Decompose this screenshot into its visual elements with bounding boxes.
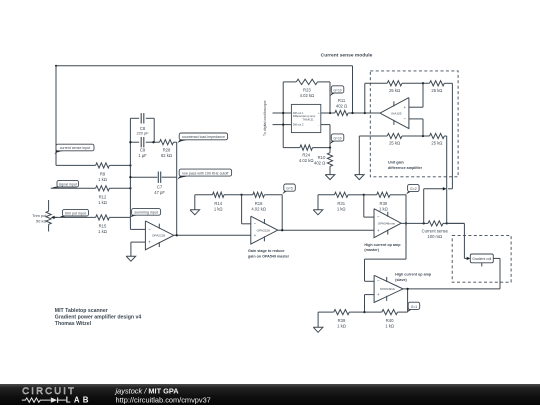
wire summing bus <box>129 118 131 217</box>
flag G=2 <box>406 184 419 194</box>
svg-text:−: − <box>148 227 151 232</box>
text high current slave <box>395 273 432 282</box>
capacitor C8 <box>136 113 149 135</box>
wire R18 ends <box>242 194 283 196</box>
svg-text:402 Ω: 402 Ω <box>336 104 347 109</box>
resistor R30 <box>377 192 390 211</box>
wire sense left up to INA <box>424 189 444 224</box>
dashed box gradient coil <box>452 236 511 283</box>
resistor 25k minus <box>430 133 445 145</box>
svg-text:low pass with 100 KHz cutoff: low pass with 100 KHz cutoff <box>182 172 228 176</box>
svg-text:jaystock / MIT GPA: jaystock / MIT GPA <box>115 387 180 396</box>
op-amp U1 OPA2228 <box>145 221 173 250</box>
logo CIRCUIT LAB <box>22 386 92 404</box>
resistor R12 <box>96 186 110 205</box>
wire R30 ends <box>364 194 406 196</box>
svg-text:+: + <box>403 105 406 110</box>
wire diff input bus <box>282 82 284 148</box>
resistor 25k feedback <box>387 81 402 93</box>
svg-text:LAB: LAB <box>66 395 92 404</box>
wire 25k bottom row <box>359 135 429 137</box>
ground op1 <box>126 256 136 261</box>
resistor 25k ref <box>430 81 445 93</box>
op-amp U5 OPA549slv <box>374 275 403 302</box>
svg-text:47 pF: 47 pF <box>154 190 165 195</box>
svg-text:R39: R39 <box>338 318 346 323</box>
wire to gradient coil <box>447 223 467 258</box>
svg-text:100 mΩ: 100 mΩ <box>427 234 442 239</box>
svg-text:(master): (master) <box>364 248 379 252</box>
svg-text:25 kΩ: 25 kΩ <box>389 88 400 93</box>
wire diff out2 right <box>321 125 330 148</box>
wire diff out1 right <box>321 112 330 114</box>
resistor R39 <box>334 310 350 329</box>
node sense right <box>446 222 448 224</box>
svg-text:Current sense: Current sense <box>422 229 449 234</box>
svg-text:1 µF: 1 µF <box>138 153 147 158</box>
svg-text:+: + <box>377 228 380 233</box>
flag G=5 <box>282 184 295 195</box>
svg-text:G=2: G=2 <box>410 187 417 191</box>
svg-text:difference amplifier: difference amplifier <box>388 166 423 170</box>
resistor R28 <box>160 140 174 158</box>
node 25k top mid <box>422 82 424 84</box>
svg-text:Diff out 1: Diff out 1 <box>293 111 304 115</box>
svg-text:OPA2228: OPA2228 <box>152 234 165 238</box>
svg-text:G=10: G=10 <box>333 137 341 141</box>
svg-text:signal input: signal input <box>59 182 77 186</box>
svg-text:Diff out 2: Diff out 2 <box>293 123 304 127</box>
svg-text:To digital oscilloscope: To digital oscilloscope <box>263 100 267 136</box>
wire sense right up to INA <box>444 136 446 223</box>
node INA out top <box>351 112 353 114</box>
resistor R31 <box>334 192 348 211</box>
wire INA ref down <box>448 83 452 189</box>
svg-text:+: + <box>377 292 380 297</box>
wire op1 output <box>174 234 251 236</box>
svg-text:1 kΩ: 1 kΩ <box>337 206 346 211</box>
svg-text:(slave): (slave) <box>395 278 407 282</box>
svg-text:+: + <box>148 240 151 245</box>
wire op2 minus input <box>242 195 251 224</box>
arrow sense net <box>443 187 447 190</box>
wire op1 minus input <box>130 217 145 229</box>
wire R11 left <box>330 112 335 114</box>
resistor R24 <box>299 145 314 163</box>
svg-text:4.02 kΩ: 4.02 kΩ <box>300 93 315 98</box>
svg-text:1 kΩ: 1 kΩ <box>98 229 107 234</box>
svg-text:summing input: summing input <box>134 211 157 215</box>
svg-text:R30: R30 <box>380 201 388 206</box>
node R9-bus <box>129 164 131 166</box>
svg-text:counteract load impedance: counteract load impedance <box>182 135 225 139</box>
wire R14 row <box>195 195 242 210</box>
svg-text:MIT Tabletop scanner: MIT Tabletop scanner <box>55 308 108 314</box>
svg-text:http://circuitlab.com/cmvpv37: http://circuitlab.com/cmvpv37 <box>116 396 211 405</box>
svg-text:OPA2228: OPA2228 <box>257 228 270 232</box>
svg-text:−: − <box>377 215 380 220</box>
ground R10 <box>325 175 335 180</box>
flag low pass with 100 KHz cutoff <box>177 169 232 181</box>
svg-text:Gain stage to reduce: Gain stage to reduce <box>248 249 284 253</box>
ground R39 <box>313 327 323 332</box>
svg-text:High current op amp: High current op amp <box>395 273 432 277</box>
svg-text:Trim pot: Trim pot <box>32 213 47 218</box>
node R24 right <box>329 146 331 148</box>
wire R9 row <box>56 164 130 166</box>
wire feedback bus <box>176 142 178 235</box>
node C9-R28 <box>152 141 154 143</box>
wire INA feedback up <box>364 83 366 113</box>
resistor R10 <box>314 148 333 175</box>
node op2 output <box>281 229 283 231</box>
svg-text:Thomas Witzel: Thomas Witzel <box>55 321 92 327</box>
svg-text:R14: R14 <box>214 201 222 206</box>
svg-text:−: − <box>318 124 320 127</box>
wire master out to slave minus <box>365 259 407 281</box>
wire op2 feedback down <box>281 195 283 230</box>
wire R40 ends <box>365 311 408 313</box>
svg-text:4.02 kΩ: 4.02 kΩ <box>299 158 314 163</box>
wire op1 plus to ground <box>131 242 146 256</box>
svg-text:R28: R28 <box>163 147 171 152</box>
wire master minus input <box>364 195 374 217</box>
flag G=10 top <box>330 86 344 97</box>
flag summing input <box>130 209 160 218</box>
wire gradient coil return <box>493 258 500 289</box>
wire C7 row <box>130 176 176 178</box>
node R11 left <box>329 112 331 114</box>
wire op2 output <box>278 229 374 231</box>
flag counteract load impedance <box>177 133 228 145</box>
arrow into gradient coil <box>467 257 471 260</box>
wire diff out 1 stub <box>273 112 292 114</box>
text title block <box>55 308 142 327</box>
svg-text:current sense input: current sense input <box>60 146 91 150</box>
svg-text:25 kΩ: 25 kΩ <box>431 141 442 146</box>
svg-text:1 kΩ: 1 kΩ <box>98 200 107 205</box>
wire slave plus input <box>365 295 375 313</box>
resistor R23 <box>296 79 317 98</box>
svg-text:1 kΩ: 1 kΩ <box>337 324 346 329</box>
op-amp U4 INA105 <box>380 98 409 129</box>
text unit gain difference amplifier <box>388 161 423 170</box>
svg-text:Unit gain: Unit gain <box>388 161 405 165</box>
dashed box current sense module <box>370 71 458 177</box>
svg-text:−: − <box>254 221 257 226</box>
svg-text:Gradient coil: Gradient coil <box>472 257 491 261</box>
ground R14 <box>190 210 200 215</box>
node R39-R40 <box>363 311 365 313</box>
svg-text:R23: R23 <box>303 88 311 93</box>
wire R24 row <box>283 147 330 149</box>
flag G=1 <box>408 302 420 312</box>
flag trim pot input <box>60 209 89 217</box>
text high current master <box>364 243 401 252</box>
wire R12 row <box>51 187 131 189</box>
wire R31 row <box>318 195 364 210</box>
node INA out fb <box>364 112 366 114</box>
node R14-R18 <box>240 194 242 196</box>
node sense left <box>423 222 425 224</box>
wire 25k top row <box>365 82 453 84</box>
svg-text:R10: R10 <box>318 155 326 160</box>
wire INA minus input <box>409 119 423 136</box>
svg-text:R12: R12 <box>99 194 107 199</box>
svg-text:G=1: G=1 <box>411 305 418 309</box>
resistor R11 <box>335 98 348 115</box>
wire master output <box>401 222 424 224</box>
svg-text:G=5: G=5 <box>286 187 293 191</box>
wire sense row <box>424 222 465 224</box>
resistor 25k gnd <box>387 133 402 145</box>
svg-text:−: − <box>377 279 380 284</box>
svg-text:trim pot input: trim pot input <box>65 211 86 215</box>
node bus-C7 <box>129 176 131 178</box>
svg-text:1 kΩ: 1 kΩ <box>214 206 223 211</box>
svg-text:R40: R40 <box>386 318 394 323</box>
wire top feedback net <box>55 65 353 166</box>
svg-text:INA105: INA105 <box>391 111 402 115</box>
resistor current sense 100mohm <box>422 221 449 239</box>
wire R39 row <box>318 312 364 327</box>
block differential op amp THS4131 <box>291 104 320 132</box>
text gain stage note <box>248 249 290 258</box>
ground R31 <box>313 210 323 215</box>
wire R23 loop <box>283 82 330 113</box>
node bus-C9 <box>129 141 131 143</box>
text Current sense module <box>321 52 373 58</box>
node R31-R30 <box>363 194 365 196</box>
resistor R18 <box>251 192 266 211</box>
svg-text:gain on OPA549 master: gain on OPA549 master <box>248 254 290 258</box>
node 25k bottom mid <box>422 135 424 137</box>
svg-text:C7: C7 <box>157 184 163 189</box>
svg-text:G=10: G=10 <box>333 88 341 92</box>
resistor R15 <box>96 215 110 234</box>
resistor R40 <box>382 310 398 329</box>
capacitor C9 <box>138 137 147 158</box>
svg-text:82 kΩ: 82 kΩ <box>161 153 172 158</box>
svg-text:High current op amp: High current op amp <box>364 243 401 247</box>
svg-text:R15: R15 <box>99 223 107 228</box>
svg-text:R18: R18 <box>255 201 263 206</box>
capacitor C7 <box>154 172 165 195</box>
wire master feedback/output bus <box>405 195 407 259</box>
svg-text:C9: C9 <box>140 147 146 152</box>
wire C9-R28 row <box>130 141 176 143</box>
resistor R14 <box>213 192 225 211</box>
node slave out <box>406 288 408 290</box>
wire diff out 2 stub <box>273 124 292 126</box>
svg-text:25 kΩ: 25 kΩ <box>431 88 442 93</box>
svg-text:R24: R24 <box>302 152 310 157</box>
text To digital oscilloscope <box>263 100 267 136</box>
node op1 output <box>176 234 178 236</box>
svg-text:OPA549slv: OPA549slv <box>380 287 396 291</box>
svg-text:Gradient power amplifier desig: Gradient power amplifier design v4 <box>55 315 142 321</box>
svg-text:50 kΩ: 50 kΩ <box>36 218 47 223</box>
svg-text:1 kΩ: 1 kΩ <box>98 177 107 182</box>
flag signal input <box>51 180 79 188</box>
svg-text:220 pF: 220 pF <box>136 130 149 135</box>
ground INA <box>355 175 365 180</box>
svg-text:25 kΩ: 25 kΩ <box>389 141 400 146</box>
flag Gradient coil <box>470 254 493 266</box>
wire slave output <box>403 288 500 290</box>
flag G=10 bottom <box>330 134 344 144</box>
potentiometer Trim pot 50k <box>32 200 57 232</box>
svg-text:1 kΩ: 1 kΩ <box>385 324 394 329</box>
flag current sense input <box>54 144 94 155</box>
svg-text:402 Ω: 402 Ω <box>314 160 325 165</box>
svg-text:R31: R31 <box>337 201 345 206</box>
wire R15 row <box>55 216 131 218</box>
svg-text:R11: R11 <box>338 98 346 103</box>
resistor R9 <box>96 163 110 182</box>
footer credits <box>115 387 211 405</box>
wire from top net down to R11 output node <box>352 66 354 113</box>
svg-text:OPA549mstr: OPA549mstr <box>378 221 395 225</box>
svg-text:+: + <box>318 112 320 115</box>
svg-text:Current sense module: Current sense module <box>321 52 373 58</box>
svg-text:+: + <box>254 233 257 238</box>
wire INA output <box>348 112 380 114</box>
svg-text:THS4131: THS4131 <box>302 117 314 121</box>
wire 25k gnd down <box>358 136 360 175</box>
svg-text:1 kΩ: 1 kΩ <box>379 206 388 211</box>
wire R40 up to output <box>407 289 409 312</box>
svg-text:−: − <box>403 116 406 121</box>
svg-text:4.02 kΩ: 4.02 kΩ <box>251 206 266 211</box>
wire C8 branch <box>130 118 154 142</box>
node R12-bus <box>129 187 131 189</box>
wire INA plus input <box>409 83 423 107</box>
svg-text:R9: R9 <box>100 171 106 176</box>
op-amp U3 OPA549mstr <box>374 209 401 238</box>
op-amp U2 OPA2228 <box>251 216 278 244</box>
